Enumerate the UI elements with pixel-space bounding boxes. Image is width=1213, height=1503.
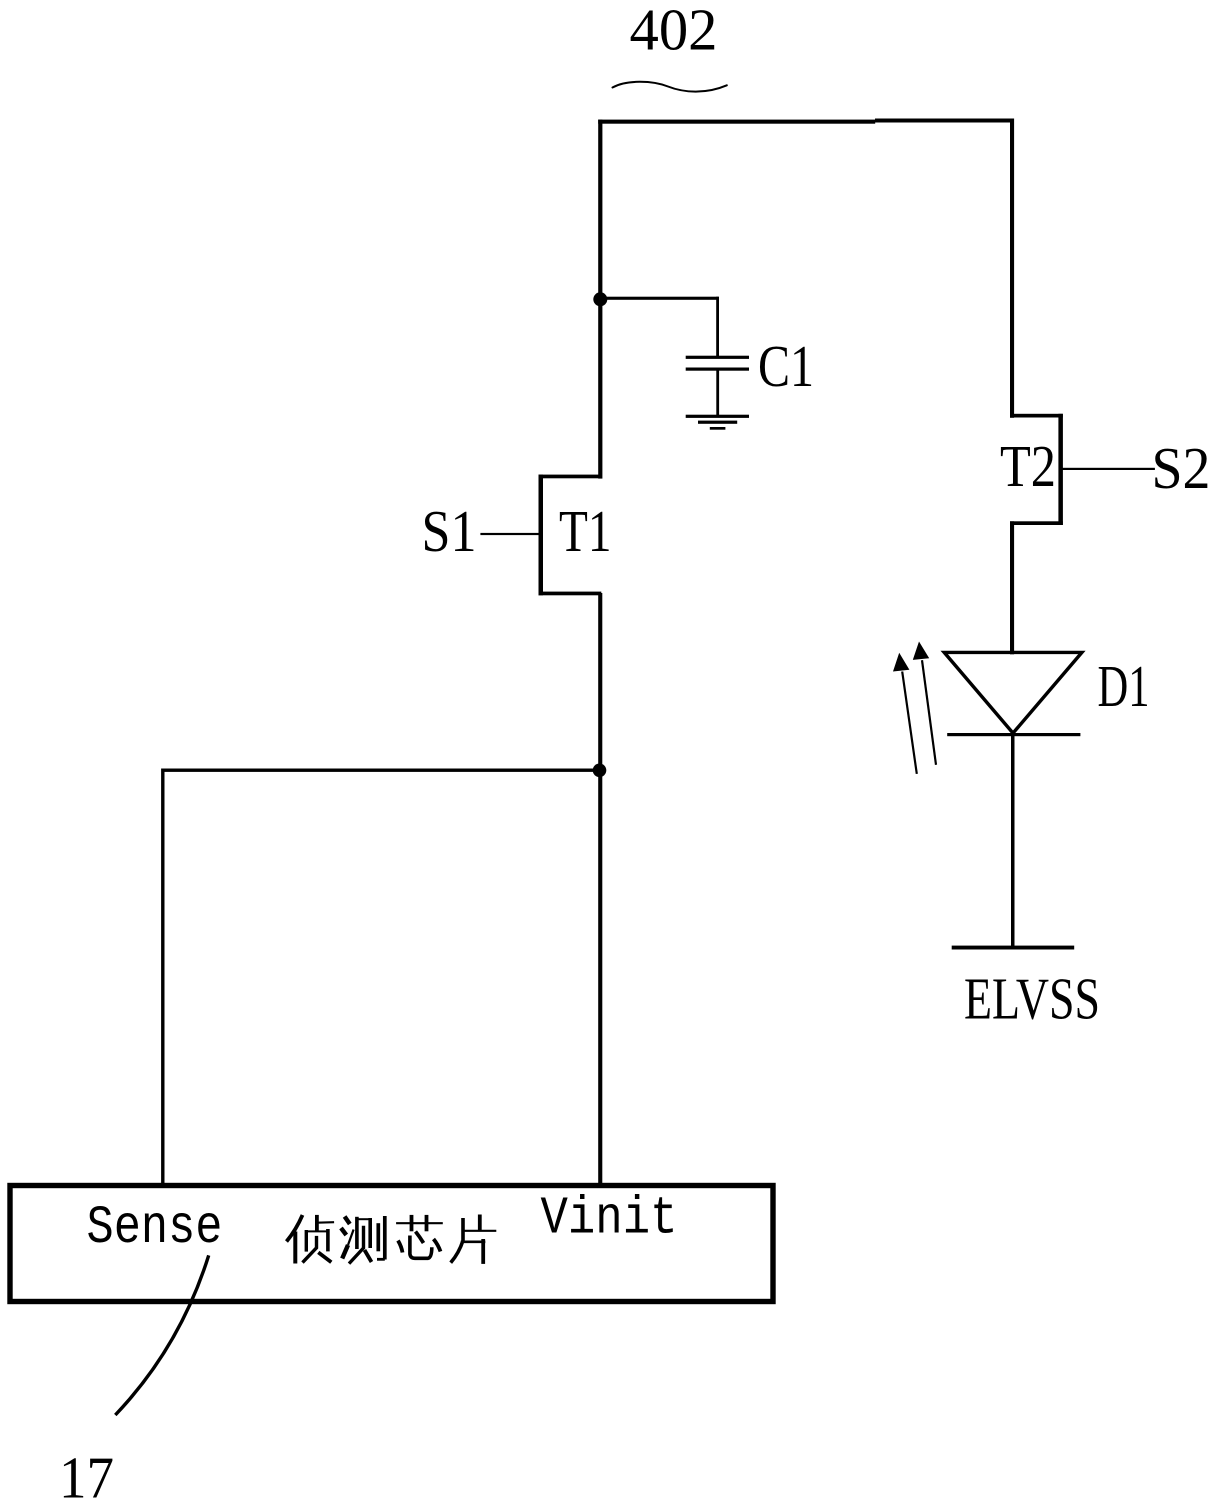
power terminal ELVSS bar	[952, 946, 1074, 950]
wire: top horizontal rail (right part)	[875, 119, 1014, 123]
capacitor C1	[686, 297, 749, 416]
wavy underline for 402	[613, 82, 727, 92]
chip label glyph 测	[341, 1216, 385, 1264]
ground symbol below C1	[686, 415, 749, 430]
wire: left vertical down to Sense terminal	[161, 769, 164, 1186]
wire: LED cathode to ELVSS	[1011, 735, 1015, 947]
wire: node B down to Vinit terminal	[598, 770, 602, 1186]
wire: gate lead from S1 to T1	[480, 533, 540, 535]
chip label glyph 片	[451, 1215, 497, 1264]
svg-text:Vinit: Vinit	[541, 1188, 678, 1248]
chip label glyph 侦	[287, 1215, 335, 1264]
wire: node A to capacitor C1	[600, 297, 719, 300]
LED D1 diode triangle and cathode bar	[944, 652, 1082, 736]
chip label glyph 芯	[396, 1215, 443, 1258]
svg-text:S2: S2	[1152, 435, 1211, 501]
LED light emission arrows	[893, 642, 936, 774]
svg-text:S1: S1	[422, 498, 477, 564]
wire: T1 source down to node B	[598, 593, 602, 773]
wire: gate lead from T2 to S2	[1062, 468, 1155, 470]
wire: left vertical from rail to T1 drain	[598, 120, 602, 479]
svg-text:T1: T1	[559, 498, 612, 564]
svg-text:17: 17	[59, 1445, 114, 1503]
svg-text:T2: T2	[1000, 433, 1056, 499]
leader line to reference 17	[115, 1255, 208, 1415]
svg-text:D1: D1	[1098, 653, 1150, 719]
svg-text:C1: C1	[758, 333, 814, 399]
transistor T2	[1010, 414, 1063, 525]
node B junction dot	[593, 764, 607, 778]
transistor T1	[539, 475, 602, 596]
wire: right vertical from rail to T2 drain	[1010, 119, 1014, 418]
svg-text:ELVSS: ELVSS	[964, 966, 1100, 1032]
node A junction dot	[593, 292, 607, 306]
detection chip box	[10, 1186, 773, 1302]
wire: T2 source down to LED D1	[1010, 521, 1014, 654]
svg-text:402: 402	[630, 0, 718, 63]
wire: node B horizontal to left	[163, 769, 600, 772]
svg-text:Sense: Sense	[87, 1198, 223, 1259]
wire: top horizontal rail (left part)	[598, 120, 875, 124]
